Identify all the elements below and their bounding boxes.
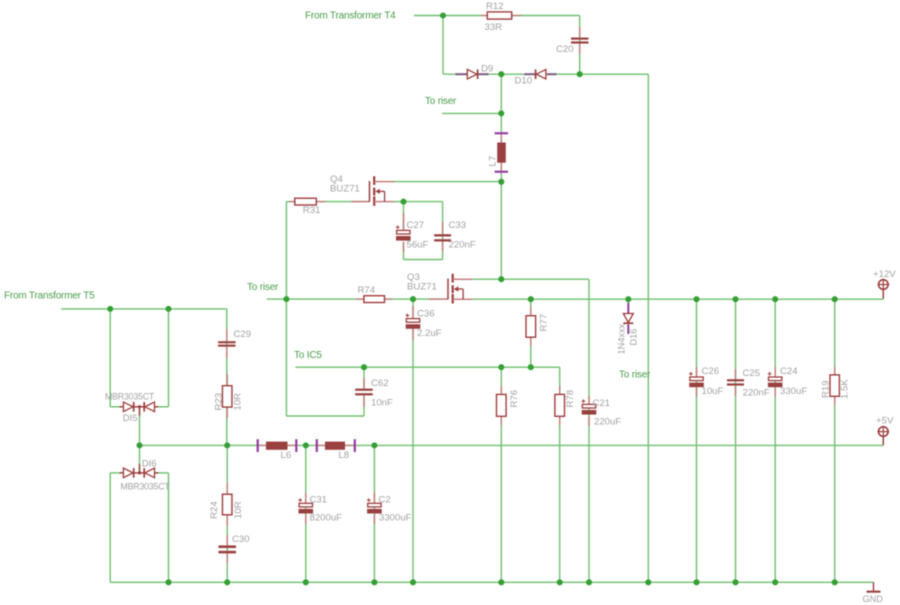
svg-text:C2: C2 <box>379 495 391 506</box>
svg-text:10R: 10R <box>233 393 244 411</box>
svg-text:10nF: 10nF <box>371 398 393 409</box>
svg-text:DI5: DI5 <box>123 413 138 424</box>
svg-text:+12V: +12V <box>873 269 896 280</box>
svg-text:L8: L8 <box>338 450 349 461</box>
svg-text:GND: GND <box>863 594 884 604</box>
svg-text:C31: C31 <box>310 495 328 506</box>
svg-text:C36: C36 <box>417 309 435 320</box>
svg-text:1.5K: 1.5K <box>839 379 850 399</box>
svg-text:220uF: 220uF <box>594 417 621 428</box>
svg-text:L7: L7 <box>488 156 499 167</box>
svg-text:R76: R76 <box>509 390 520 408</box>
svg-text:DI6: DI6 <box>142 459 157 470</box>
svg-text:R23: R23 <box>213 393 224 411</box>
svg-text:C26: C26 <box>702 366 720 377</box>
svg-text:L6: L6 <box>281 450 292 461</box>
svg-text:220nF: 220nF <box>743 388 770 399</box>
svg-text:C25: C25 <box>743 368 761 379</box>
svg-text:D16: D16 <box>629 329 639 346</box>
svg-text:R31: R31 <box>303 205 321 216</box>
svg-text:R78: R78 <box>565 390 576 408</box>
svg-text:C33: C33 <box>449 220 467 231</box>
svg-text:R12: R12 <box>486 1 504 12</box>
svg-text:D9: D9 <box>481 63 493 74</box>
svg-text:2.2uF: 2.2uF <box>417 328 442 339</box>
svg-text:+5V: +5V <box>876 416 894 427</box>
svg-text:From Transformer T5: From Transformer T5 <box>4 290 95 301</box>
svg-text:D10: D10 <box>515 76 533 87</box>
svg-text:C62: C62 <box>371 378 389 389</box>
svg-text:From Transformer T4: From Transformer T4 <box>305 10 396 21</box>
svg-text:MBR3035CT: MBR3035CT <box>121 481 171 491</box>
svg-text:3300uF: 3300uF <box>379 513 412 524</box>
svg-text:To IC5: To IC5 <box>294 350 322 361</box>
svg-text:8200uF: 8200uF <box>310 513 343 524</box>
svg-text:330uF: 330uF <box>780 386 807 397</box>
svg-text:To riser: To riser <box>425 96 457 107</box>
svg-text:C20: C20 <box>556 44 574 55</box>
svg-text:R77: R77 <box>538 314 549 332</box>
svg-text:BUZ71: BUZ71 <box>407 282 437 293</box>
svg-text:C21: C21 <box>593 398 611 409</box>
svg-text:56uF: 56uF <box>407 240 429 251</box>
svg-text:10uF: 10uF <box>702 386 724 397</box>
svg-text:R19: R19 <box>820 380 831 398</box>
svg-text:C29: C29 <box>234 329 252 340</box>
svg-text:1N4xxx: 1N4xxx <box>616 323 626 354</box>
svg-text:R24: R24 <box>209 501 220 519</box>
svg-text:C30: C30 <box>232 534 250 545</box>
svg-text:BUZ71: BUZ71 <box>330 183 360 194</box>
svg-text:MBR3035CT: MBR3035CT <box>105 391 155 401</box>
svg-text:To riser: To riser <box>247 282 279 293</box>
svg-text:33R: 33R <box>485 22 503 33</box>
svg-text:C27: C27 <box>407 220 425 231</box>
svg-text:R74: R74 <box>358 285 376 296</box>
svg-text:To riser: To riser <box>619 370 651 381</box>
svg-text:220nF: 220nF <box>449 240 476 251</box>
svg-text:10R: 10R <box>233 501 244 519</box>
svg-text:C24: C24 <box>780 366 798 377</box>
